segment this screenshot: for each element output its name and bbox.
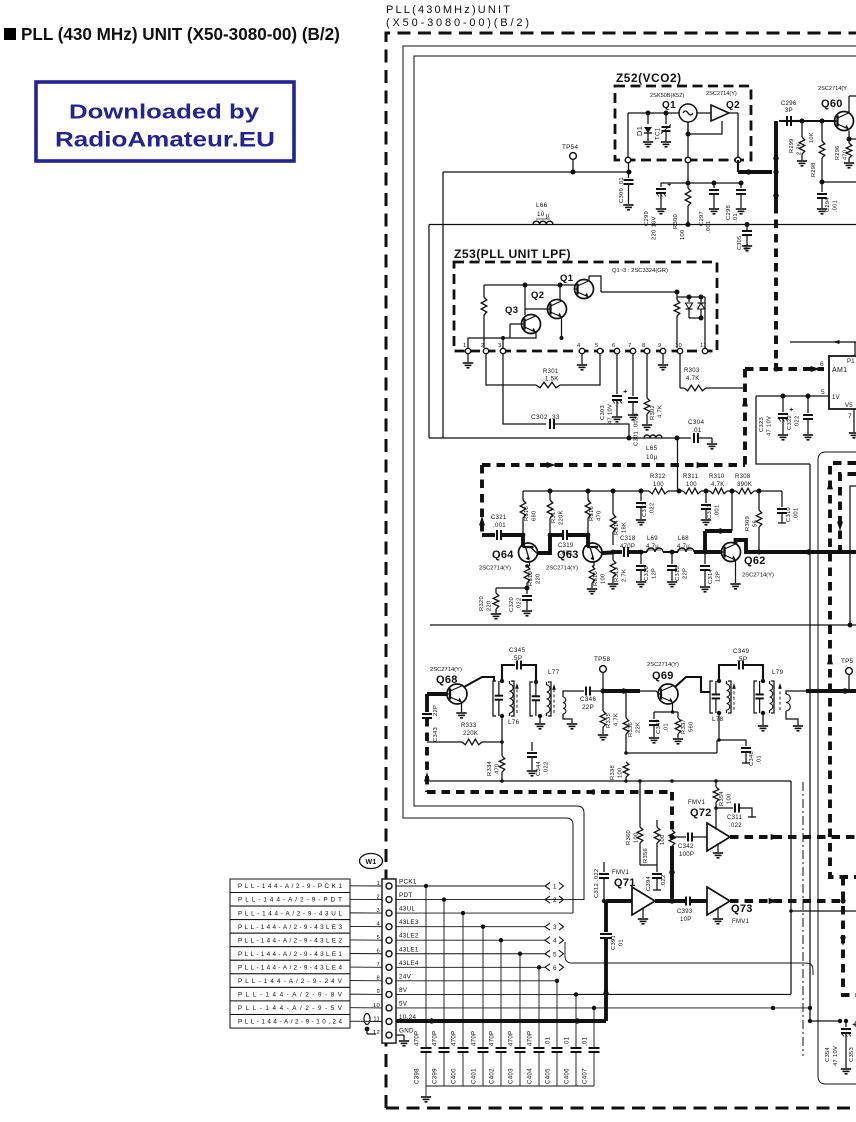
resistor R298: [819, 121, 825, 185]
C346 label: [580, 696, 596, 711]
C402 label: [489, 1031, 496, 1084]
svg-text:Z52(VCO2): Z52(VCO2): [616, 71, 682, 85]
svg-text:C315: C315: [675, 566, 681, 581]
C303 label: [600, 404, 614, 424]
svg-text:10: 10: [537, 211, 545, 218]
svg-text:4.7K: 4.7K: [614, 713, 620, 726]
wire Z52 pin2 stem: [686, 163, 691, 186]
capacitor C342: [669, 833, 707, 842]
C297 label: [699, 211, 712, 233]
transistor Q63 label: [546, 549, 579, 572]
svg-text:4: 4: [553, 938, 557, 945]
FMV1 Q72 label: [688, 800, 712, 819]
capacitor C311: [716, 804, 756, 818]
C301 label: [634, 413, 640, 446]
svg-text:C349: C349: [733, 648, 749, 655]
svg-text:47 10V: 47 10V: [608, 404, 614, 424]
capacitor C305: [742, 222, 752, 245]
capacitor C346: [586, 687, 603, 696]
ground under C294: [817, 209, 827, 214]
capacitor C393: [686, 897, 707, 906]
ground under C313: [701, 520, 711, 525]
svg-text:56: 56: [753, 520, 759, 527]
svg-text:L68: L68: [678, 536, 689, 542]
wire pin5 return: [756, 396, 810, 464]
wire osc to buffer: [697, 112, 711, 114]
resistor R333 label: [461, 723, 478, 737]
svg-text:470: 470: [597, 510, 603, 521]
R336 label: [628, 722, 642, 737]
svg-text:470P: 470P: [451, 1031, 458, 1046]
capacitor C400: [458, 913, 469, 1086]
svg-text:(X50-3080-00)(B/2): (X50-3080-00)(B/2): [386, 17, 529, 29]
chain line x803: [802, 782, 804, 1056]
svg-text:2SC2714(Y: 2SC2714(Y: [818, 86, 847, 92]
FMV1 Q73 label: [731, 903, 753, 925]
R299 label: [789, 138, 803, 155]
ground under TC1: [661, 142, 671, 147]
capacitor C348: [719, 740, 751, 763]
svg-text:6: 6: [820, 361, 824, 368]
svg-text:18K: 18K: [622, 522, 628, 533]
svg-text:6: 6: [553, 965, 557, 972]
capacitor C302: [503, 354, 632, 441]
svg-text:10µ: 10µ: [646, 454, 658, 461]
wire y865 link: [640, 864, 657, 866]
transistor Q68: [447, 684, 467, 704]
wire riser x443: [442, 172, 444, 438]
bus C343 branch: [427, 694, 447, 712]
svg-text:11: 11: [700, 343, 707, 349]
R334 label: [487, 760, 501, 776]
svg-text:R336: R336: [628, 722, 634, 737]
svg-text:L65: L65: [646, 445, 658, 452]
R337 label: [681, 719, 695, 734]
svg-text:TP58: TP58: [594, 656, 610, 663]
capacitor C344: [502, 742, 537, 770]
svg-text:C343: C343: [433, 727, 439, 742]
svg-text:C322: C322: [787, 415, 793, 430]
AM1 label: [832, 367, 847, 374]
page title bullet: [4, 28, 16, 40]
svg-text:6: 6: [612, 343, 616, 349]
ground under C299: [656, 209, 666, 214]
svg-text:4.7K: 4.7K: [711, 482, 725, 488]
C320 label: [509, 597, 523, 612]
resistor R300: [685, 183, 691, 227]
ground under C322: [803, 435, 813, 440]
svg-text:7: 7: [848, 413, 852, 420]
capacitor C349 bridge: [719, 661, 765, 684]
ground under R296: [844, 163, 854, 168]
IC AM1 box: [829, 356, 856, 409]
svg-text:RadioAmateur.EU: RadioAmateur.EU: [55, 128, 275, 152]
transistor Q69 label: [652, 670, 674, 682]
svg-text:C296: C296: [781, 101, 797, 107]
R338 label: [610, 765, 624, 780]
svg-text:4.7K: 4.7K: [686, 376, 700, 382]
capacitor C312: [599, 862, 609, 903]
AM1 P1 label: [847, 359, 855, 365]
resistor R311 label: [683, 474, 698, 488]
transistor Q62: [722, 543, 741, 562]
svg-text:L78: L78: [712, 716, 724, 723]
ground under C297: [709, 209, 719, 214]
Z53 part label: [612, 268, 668, 274]
C398 label: [414, 1031, 421, 1084]
capacitor C298: [736, 183, 746, 208]
svg-text:12: 12: [373, 1030, 380, 1036]
wire x429 riser: [428, 225, 430, 439]
svg-text:100: 100: [618, 767, 624, 778]
svg-text:Q62: Q62: [744, 555, 766, 567]
test point TP58: [594, 656, 610, 694]
wire Q72 top: [715, 808, 717, 830]
capacitor C407: [589, 1008, 600, 1086]
block Z52 dashed box: [615, 86, 751, 160]
wire Q64 base: [521, 535, 525, 547]
svg-text:C314: C314: [708, 568, 714, 584]
svg-text:C312 .022: C312 .022: [594, 869, 600, 898]
svg-text:C394: C394: [646, 875, 652, 891]
resistor R303 label: [684, 368, 700, 382]
svg-text:R298: R298: [811, 162, 817, 177]
banner text line1: [69, 101, 260, 124]
svg-text:C320: C320: [509, 597, 515, 612]
ground at pin12 GND: [396, 1035, 409, 1046]
svg-text:.01: .01: [664, 723, 670, 732]
svg-text:TC1: TC1: [656, 127, 662, 140]
resistor R311: [679, 488, 709, 494]
capacitor C294: [817, 182, 827, 208]
svg-text:L79: L79: [772, 669, 784, 676]
svg-text:.001: .001: [715, 505, 721, 517]
R320 label: [479, 596, 493, 611]
C354 label: [825, 1046, 839, 1066]
svg-text:C297: C297: [699, 211, 705, 226]
capacitor C318 label: [620, 536, 636, 550]
wire 8V run: [576, 993, 791, 995]
cap bank ground rail: [421, 1086, 594, 1102]
bus to Q64: [479, 465, 495, 535]
ground under Q68: [456, 703, 466, 718]
bus Q73 output: [730, 898, 843, 904]
wire Q63 collector: [602, 550, 616, 555]
svg-text:C404: C404: [527, 1068, 534, 1084]
Z52 part label 2SK50B: [650, 93, 684, 99]
svg-text:C304: C304: [688, 419, 704, 426]
wire R338 column: [625, 753, 627, 762]
svg-text:Q73: Q73: [731, 903, 753, 915]
svg-text:R316: R316: [589, 506, 595, 521]
svg-text:3: 3: [553, 924, 557, 931]
transistor Q1 label: [662, 100, 676, 111]
resistor R320: [493, 588, 499, 613]
wire to C346: [570, 690, 584, 692]
transistor Q63: [583, 543, 602, 562]
outer dashed board border: [386, 33, 856, 1108]
svg-text:TP5: TP5: [841, 658, 854, 665]
svg-text:22P: 22P: [683, 568, 689, 579]
svg-text:GND: GND: [399, 1028, 414, 1035]
svg-text:R356: R356: [643, 848, 649, 863]
node Z52 pin2: [685, 157, 691, 163]
resistor R310: [706, 488, 735, 494]
C400 label: [451, 1031, 458, 1084]
svg-text:10: 10: [675, 343, 682, 349]
capacitor C404: [534, 967, 545, 1086]
svg-text:220 10V: 220 10V: [652, 216, 658, 240]
transistor Q3 of Z53 label: [505, 305, 518, 316]
svg-text:R335: R335: [606, 713, 612, 728]
ground under C303: [612, 417, 622, 422]
wire ground rail y625: [430, 624, 856, 626]
tank L77: [530, 682, 556, 718]
wire into Q69: [603, 688, 659, 694]
svg-text:10K: 10K: [809, 132, 815, 143]
wire pin11 riser: [701, 297, 705, 348]
wire L65 rail: [429, 436, 680, 441]
svg-text:2SC2714(Y): 2SC2714(Y): [706, 91, 737, 97]
svg-text:C402: C402: [489, 1068, 496, 1084]
resistor in Z53: [481, 297, 487, 348]
L77 label: [548, 669, 560, 676]
transformer secondary coil: [563, 691, 577, 729]
connector W1 designator: [360, 854, 383, 869]
C405 label: [545, 1036, 552, 1084]
capacitor C354: [841, 1019, 856, 1068]
capacitor C391: [600, 934, 612, 1021]
ground under R315: [587, 589, 597, 594]
svg-text:FMV1: FMV1: [612, 870, 630, 876]
wire 5V run: [594, 1006, 812, 1023]
svg-text:C400: C400: [451, 1068, 458, 1084]
svg-text:10P: 10P: [680, 917, 692, 923]
resistor R337: [675, 712, 681, 738]
R309 label: [745, 516, 759, 531]
svg-text:220: 220: [487, 600, 493, 611]
ground under C314: [700, 587, 710, 592]
svg-text:.022: .022: [661, 875, 667, 887]
resistor R354: [713, 781, 719, 810]
L76 label: [508, 719, 520, 726]
C310 label: [786, 507, 800, 522]
svg-text:PCK1: PCK1: [399, 879, 417, 886]
resistor R316: [585, 491, 591, 535]
capacitor C323: [778, 396, 793, 434]
wire Q71 output: [655, 899, 685, 903]
svg-text:C305: C305: [737, 236, 743, 250]
resistor R301: [486, 354, 600, 388]
resistor on bus label: [660, 834, 666, 845]
svg-text:TP54: TP54: [562, 144, 578, 151]
svg-text:12P: 12P: [716, 571, 722, 582]
wire Q1 collector link: [589, 276, 601, 292]
ground under C354: [841, 1069, 851, 1074]
svg-text:C302 .33: C302 .33: [531, 414, 560, 421]
C313 label: [707, 504, 721, 519]
svg-text:2: 2: [481, 343, 485, 349]
svg-text:.001: .001: [493, 523, 506, 529]
ground under R337: [673, 739, 683, 744]
svg-text:Z53(PLL UNIT LPF): Z53(PLL UNIT LPF): [454, 247, 571, 261]
transistor Q69: [658, 684, 678, 704]
capacitor C403: [515, 954, 526, 1086]
svg-text:1: 1: [553, 884, 557, 891]
svg-text:.01: .01: [733, 213, 739, 222]
wire ground rail y224: [429, 224, 856, 226]
wire osc output stem: [687, 122, 689, 157]
svg-text:470: 470: [843, 150, 849, 160]
C403 label: [508, 1031, 515, 1084]
Q60 part label: [818, 86, 847, 92]
bus to AM1 pin6: [745, 363, 824, 372]
capacitor C296: [779, 116, 802, 126]
svg-text:FMV1: FMV1: [688, 800, 706, 806]
resistor R335: [600, 691, 606, 734]
wire Q63 emitter: [592, 561, 594, 566]
wire Q2 base feed: [525, 309, 564, 340]
svg-text:C391: C391: [611, 935, 617, 950]
svg-text:L66: L66: [536, 202, 548, 209]
capacitor C394: [652, 865, 662, 890]
bus x776 upper: [773, 121, 779, 172]
svg-text:C401: C401: [471, 1068, 478, 1084]
inductor L69 label: [646, 536, 661, 550]
svg-text:470P: 470P: [414, 1031, 421, 1046]
bus y465: [482, 462, 745, 468]
svg-text:43LE4: 43LE4: [399, 960, 419, 967]
R314 label: [614, 519, 628, 535]
svg-text:22K: 22K: [636, 722, 642, 733]
C391 label: [611, 935, 625, 950]
capacitor C406: [571, 994, 582, 1086]
svg-text:470P: 470P: [471, 1031, 478, 1046]
transistor Q2 of Z53 label: [531, 290, 544, 301]
svg-text:43LE3: 43LE3: [399, 919, 419, 926]
transistor Q64: [519, 543, 538, 562]
harness arrows 1-6: [545, 883, 564, 972]
svg-text:C348: C348: [749, 751, 755, 766]
svg-text:5: 5: [821, 389, 825, 396]
tank L76: [493, 679, 519, 718]
svg-text:100P: 100P: [679, 852, 694, 858]
C404 label: [527, 1031, 534, 1084]
ground under C315: [667, 582, 677, 587]
svg-text:8: 8: [642, 343, 646, 349]
svg-text:8V: 8V: [399, 987, 408, 994]
svg-text:C311: C311: [727, 815, 742, 821]
wire Q60 base rail: [779, 119, 836, 124]
Q68 part label: [430, 667, 462, 673]
ground under R313: [608, 584, 618, 589]
banner text line2: [55, 128, 275, 152]
svg-text:1V: 1V: [832, 395, 840, 401]
svg-text:11: 11: [373, 1016, 380, 1022]
svg-text:.022: .022: [544, 762, 550, 774]
R316 label: [589, 506, 603, 521]
svg-text:22P: 22P: [433, 705, 439, 716]
capacitor C304: [677, 433, 712, 443]
wire Z53 top rail: [484, 283, 575, 316]
page title text: [21, 25, 340, 44]
TC1 label: [656, 127, 662, 140]
resistor Z53 right: [674, 292, 680, 348]
AM1 pin7: [848, 409, 856, 438]
svg-text:680: 680: [532, 510, 538, 521]
C394 label: [646, 875, 667, 891]
svg-text:P1: P1: [847, 359, 855, 365]
board caption line1: [386, 4, 510, 16]
resistor R309: [756, 491, 762, 554]
R296 label: [835, 145, 849, 160]
resistor R360: [637, 781, 643, 865]
C344 label: [536, 760, 550, 776]
amp Q71: [632, 887, 655, 915]
R315 label: [593, 571, 607, 586]
R300 label: [673, 214, 686, 240]
capacitor C315: [667, 552, 677, 581]
capacitor C347: [649, 712, 659, 737]
capacitor C301: [628, 354, 638, 414]
capacitor C320: [522, 588, 532, 610]
svg-text:47 10V: 47 10V: [833, 1046, 839, 1066]
C347 label: [656, 719, 670, 734]
ground under C323: [778, 435, 788, 440]
svg-text:C347: C347: [656, 719, 662, 734]
svg-text:C346: C346: [580, 696, 596, 703]
svg-text:5: 5: [595, 343, 599, 349]
svg-text:Q3: Q3: [505, 305, 518, 316]
wire AM1 pin5 rail: [756, 394, 829, 399]
trimmer TC1: [661, 111, 671, 142]
bus Q72 output: [730, 834, 856, 840]
svg-text:3P: 3P: [785, 108, 793, 114]
svg-text:470: 470: [495, 763, 501, 774]
transistor Q60 label: [821, 98, 843, 110]
bus 10.24: [396, 1018, 606, 1024]
svg-text:5: 5: [553, 951, 557, 958]
svg-text:C354: C354: [825, 1046, 831, 1062]
L65 label: [646, 445, 658, 461]
svg-text:.01: .01: [692, 427, 702, 434]
svg-text:4.7K: 4.7K: [658, 405, 664, 418]
svg-text:1: 1: [463, 343, 467, 349]
svg-text:R360: R360: [626, 830, 632, 845]
svg-text:.01: .01: [619, 939, 625, 948]
wire rail y781: [430, 779, 791, 783]
wire Q60 emitter: [847, 131, 856, 144]
jumper loop at pin11: [364, 1014, 376, 1035]
wire Q71 input: [606, 899, 632, 903]
transistor Q1 of Z53: [575, 280, 594, 299]
svg-text:100: 100: [634, 832, 640, 843]
transistor Q64 label: [479, 549, 514, 572]
svg-text:5V: 5V: [399, 1000, 408, 1007]
capacitor C317: [636, 491, 646, 519]
capacitor C353 partial: [849, 1021, 856, 1062]
R298 label: [809, 132, 817, 177]
wires table to connector: [350, 886, 382, 1022]
ground under R335: [598, 735, 608, 740]
C300 label: [619, 177, 625, 203]
R356 label: [643, 848, 649, 863]
ground under L77: [535, 716, 545, 729]
wire x810 supply: [809, 464, 811, 1021]
wire R336 lower link: [626, 740, 717, 753]
wire x679 riser: [677, 438, 679, 491]
capacitor C316: [636, 552, 646, 581]
